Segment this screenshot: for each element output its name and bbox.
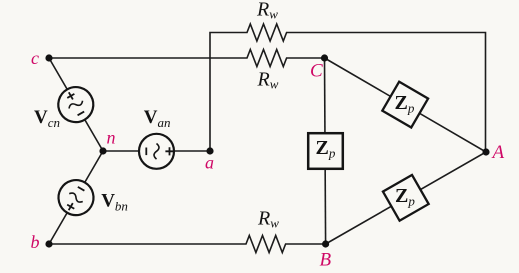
svg-text:Rw: Rw xyxy=(257,208,279,231)
svg-text:Rw: Rw xyxy=(256,0,278,21)
svg-text:a: a xyxy=(205,153,214,173)
svg-text:c: c xyxy=(31,48,39,68)
svg-text:b: b xyxy=(31,232,40,252)
svg-text:B: B xyxy=(320,250,332,271)
svg-text:Vcn: Vcn xyxy=(34,107,60,130)
svg-text:Rw: Rw xyxy=(257,69,279,92)
svg-text:C: C xyxy=(310,61,323,82)
svg-text:Vbn: Vbn xyxy=(101,191,128,214)
svg-text:n: n xyxy=(107,127,116,147)
svg-text:A: A xyxy=(491,142,505,163)
svg-text:Van: Van xyxy=(144,107,171,130)
